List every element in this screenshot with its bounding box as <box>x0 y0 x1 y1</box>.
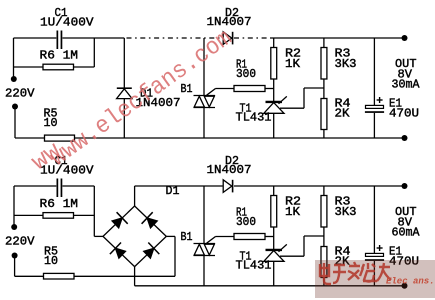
svg-text:3K3: 3K3 <box>335 57 357 71</box>
svg-text:R6 1M: R6 1M <box>40 197 79 211</box>
wire top rail left segment <box>14 37 57 39</box>
wire T1 ref to R3-R4 node (top) <box>280 107 304 109</box>
wire B1 anode to bottom rail (top) <box>203 108 205 139</box>
wire bottom rail <box>75 137 405 139</box>
wire B1 gate to R1 (top) <box>216 88 235 90</box>
wire top rail to R3 (bottom) <box>323 186 325 196</box>
wire top rail to R2 (top) <box>273 38 275 48</box>
wire left rail <box>13 38 15 79</box>
wire R6 loop right vertical <box>93 38 95 67</box>
wire top rail bridge to D2 <box>135 185 223 187</box>
wire rail down to bridge AC1 <box>93 186 95 236</box>
wire top rail to E1 (bottom) <box>373 186 375 253</box>
svg-text:Elec ans.com: Elec ans.com <box>386 277 435 287</box>
node 220V lower terminal (bottom) <box>12 253 18 259</box>
resistor R4 (bottom) <box>321 247 327 278</box>
wire top rail right segment <box>270 37 405 39</box>
svg-text:10: 10 <box>44 254 58 268</box>
svg-text:30mA: 30mA <box>392 78 421 92</box>
svg-text:2K: 2K <box>335 106 351 120</box>
wire left rail (bottom) <box>13 186 15 227</box>
wire lower terminal down <box>14 107 16 139</box>
resistor R1 (bottom) <box>234 234 265 240</box>
wire top rail right segment (bottom) <box>234 185 405 187</box>
wire B1 branch vertical (bottom) <box>203 186 205 244</box>
capacitor E1 electrolytic (bottom) <box>365 245 384 261</box>
bridge diode upper-right <box>142 212 158 228</box>
bridge diode lower-right <box>144 243 160 259</box>
wire D1 anode to bottom rail <box>123 99 125 138</box>
svg-text:TL431: TL431 <box>236 259 272 273</box>
watermark chinese characters <box>319 262 391 284</box>
resistor R3 (bottom) <box>321 196 327 228</box>
wire R4 to bottom rail (bottom) <box>323 278 325 286</box>
wire bridge plus up <box>134 186 136 206</box>
resistor R3 (top) <box>321 48 327 80</box>
svg-text:300: 300 <box>236 215 256 229</box>
shunt regulator T1 TL431 (top) <box>264 96 287 138</box>
wire R5 rail left (bottom) <box>15 275 44 277</box>
wire top rail to R2 (bottom) <box>273 186 275 196</box>
wire R3 to R4 (top) <box>323 79 325 99</box>
node OUT- terminal (top) <box>402 135 408 141</box>
wire R6 right <box>74 66 95 68</box>
svg-text:60mA: 60mA <box>392 226 421 240</box>
svg-text:1N4007: 1N4007 <box>207 163 252 177</box>
resistor R2 (top) <box>271 48 277 80</box>
wire bridge minus down <box>134 267 136 286</box>
wire R5 rail to bridge AC2 <box>74 275 175 277</box>
bridge diode lower-left <box>110 243 126 259</box>
svg-text:1K: 1K <box>285 205 301 219</box>
wire top rail after C1 (bottom) <box>63 185 95 187</box>
capacitor C1 <box>57 31 63 50</box>
wire top rail dashed section <box>127 37 223 39</box>
wire R1 to T1 cathode node (top) <box>265 88 274 90</box>
bidirectional trigger B1 (top) <box>194 89 216 108</box>
resistor R2 (bottom) <box>271 196 277 228</box>
svg-text:1U/400V: 1U/400V <box>40 16 94 30</box>
node OUT+ terminal (bottom) <box>402 183 408 189</box>
shunt regulator T1 TL431 (bottom) <box>264 244 287 285</box>
wire E1 to bottom rail (bottom) <box>373 261 375 286</box>
wire R4 to bottom rail (top) <box>323 130 325 139</box>
svg-text:1K: 1K <box>285 57 301 71</box>
wire R2 to T1 (bottom) <box>273 227 275 250</box>
svg-text:10: 10 <box>44 116 58 130</box>
svg-text:R6 1M: R6 1M <box>40 48 79 62</box>
diode D2 <box>223 32 232 45</box>
resistor R4 (top) <box>321 99 327 130</box>
capacitor E1 electrolytic (top) <box>365 97 384 113</box>
svg-text:TL431: TL431 <box>236 111 272 125</box>
wire lower terminal down (bottom) <box>14 256 16 277</box>
node OUT- terminal (bottom) <box>402 283 408 289</box>
wire bottom rail (bottom) <box>135 285 405 287</box>
diode D2 (bottom) <box>223 180 232 193</box>
wire R6 left (bottom) <box>14 214 43 216</box>
node 220V lower terminal <box>12 104 18 110</box>
node 220V upper terminal (bottom) <box>11 224 17 230</box>
bridge rectifier D1 diamond <box>103 206 166 267</box>
wire B1 anode to bottom rail (bottom) <box>203 256 205 286</box>
svg-text:3K3: 3K3 <box>335 205 357 219</box>
node OUT+ terminal (top) <box>402 35 408 41</box>
wire top rail to R3 (top) <box>323 38 325 48</box>
wire B1 branch vertical (top) <box>203 38 205 96</box>
wire R1 to T1 cathode node (bottom) <box>265 236 274 238</box>
resistor R6 <box>43 64 74 70</box>
svg-text:300: 300 <box>236 67 256 81</box>
resistor R5 <box>45 135 75 141</box>
wire R6 left <box>14 66 44 68</box>
wire top rail to D1 <box>123 38 125 88</box>
node 220V upper terminal <box>11 76 17 82</box>
svg-text:220V: 220V <box>5 234 35 248</box>
wire T1 ref to R3-R4 node (bottom) <box>280 255 304 257</box>
svg-text:470U: 470U <box>389 106 419 120</box>
diode D1 <box>117 88 132 98</box>
wire top rail left segment 2 <box>14 185 56 187</box>
wire E1 to bottom rail (top) <box>373 113 375 138</box>
bidirectional trigger B1 (bottom) <box>194 237 216 256</box>
watermark band bottom right <box>315 260 435 298</box>
wire R3 to R4 (bottom) <box>323 227 325 247</box>
svg-text:1N4007: 1N4007 <box>207 15 252 29</box>
wire R6 right (bottom) <box>74 214 95 216</box>
resistor R5 (bottom) <box>44 273 75 279</box>
wire top rail to E1 (top) <box>373 38 375 105</box>
resistor R6 (bottom) <box>43 213 74 219</box>
wire top rail dashed after D2 <box>234 37 270 39</box>
wire R2 to T1 (top) <box>273 79 275 102</box>
wire top rail after C1 <box>63 37 125 39</box>
resistor R1 (top) <box>234 86 265 92</box>
wire bottom rail to R5 <box>15 137 45 139</box>
svg-text:B1: B1 <box>181 230 193 244</box>
bridge diode upper-left <box>112 212 128 228</box>
svg-text:220V: 220V <box>5 86 35 100</box>
wire B1 gate to R1 (bottom) <box>216 236 235 238</box>
capacitor C1 (bottom) <box>57 179 63 198</box>
